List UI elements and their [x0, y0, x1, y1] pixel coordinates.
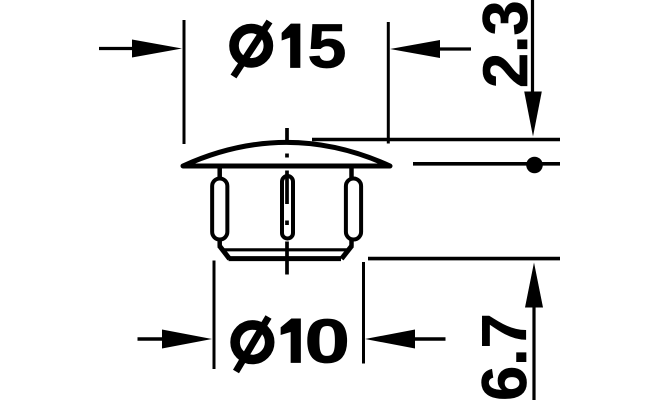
svg-text:6.7: 6.7 — [470, 313, 540, 400]
svg-text:2.3: 2.3 — [471, 0, 541, 88]
svg-text:5: 5 — [308, 13, 347, 82]
svg-text:0: 0 — [305, 308, 351, 377]
